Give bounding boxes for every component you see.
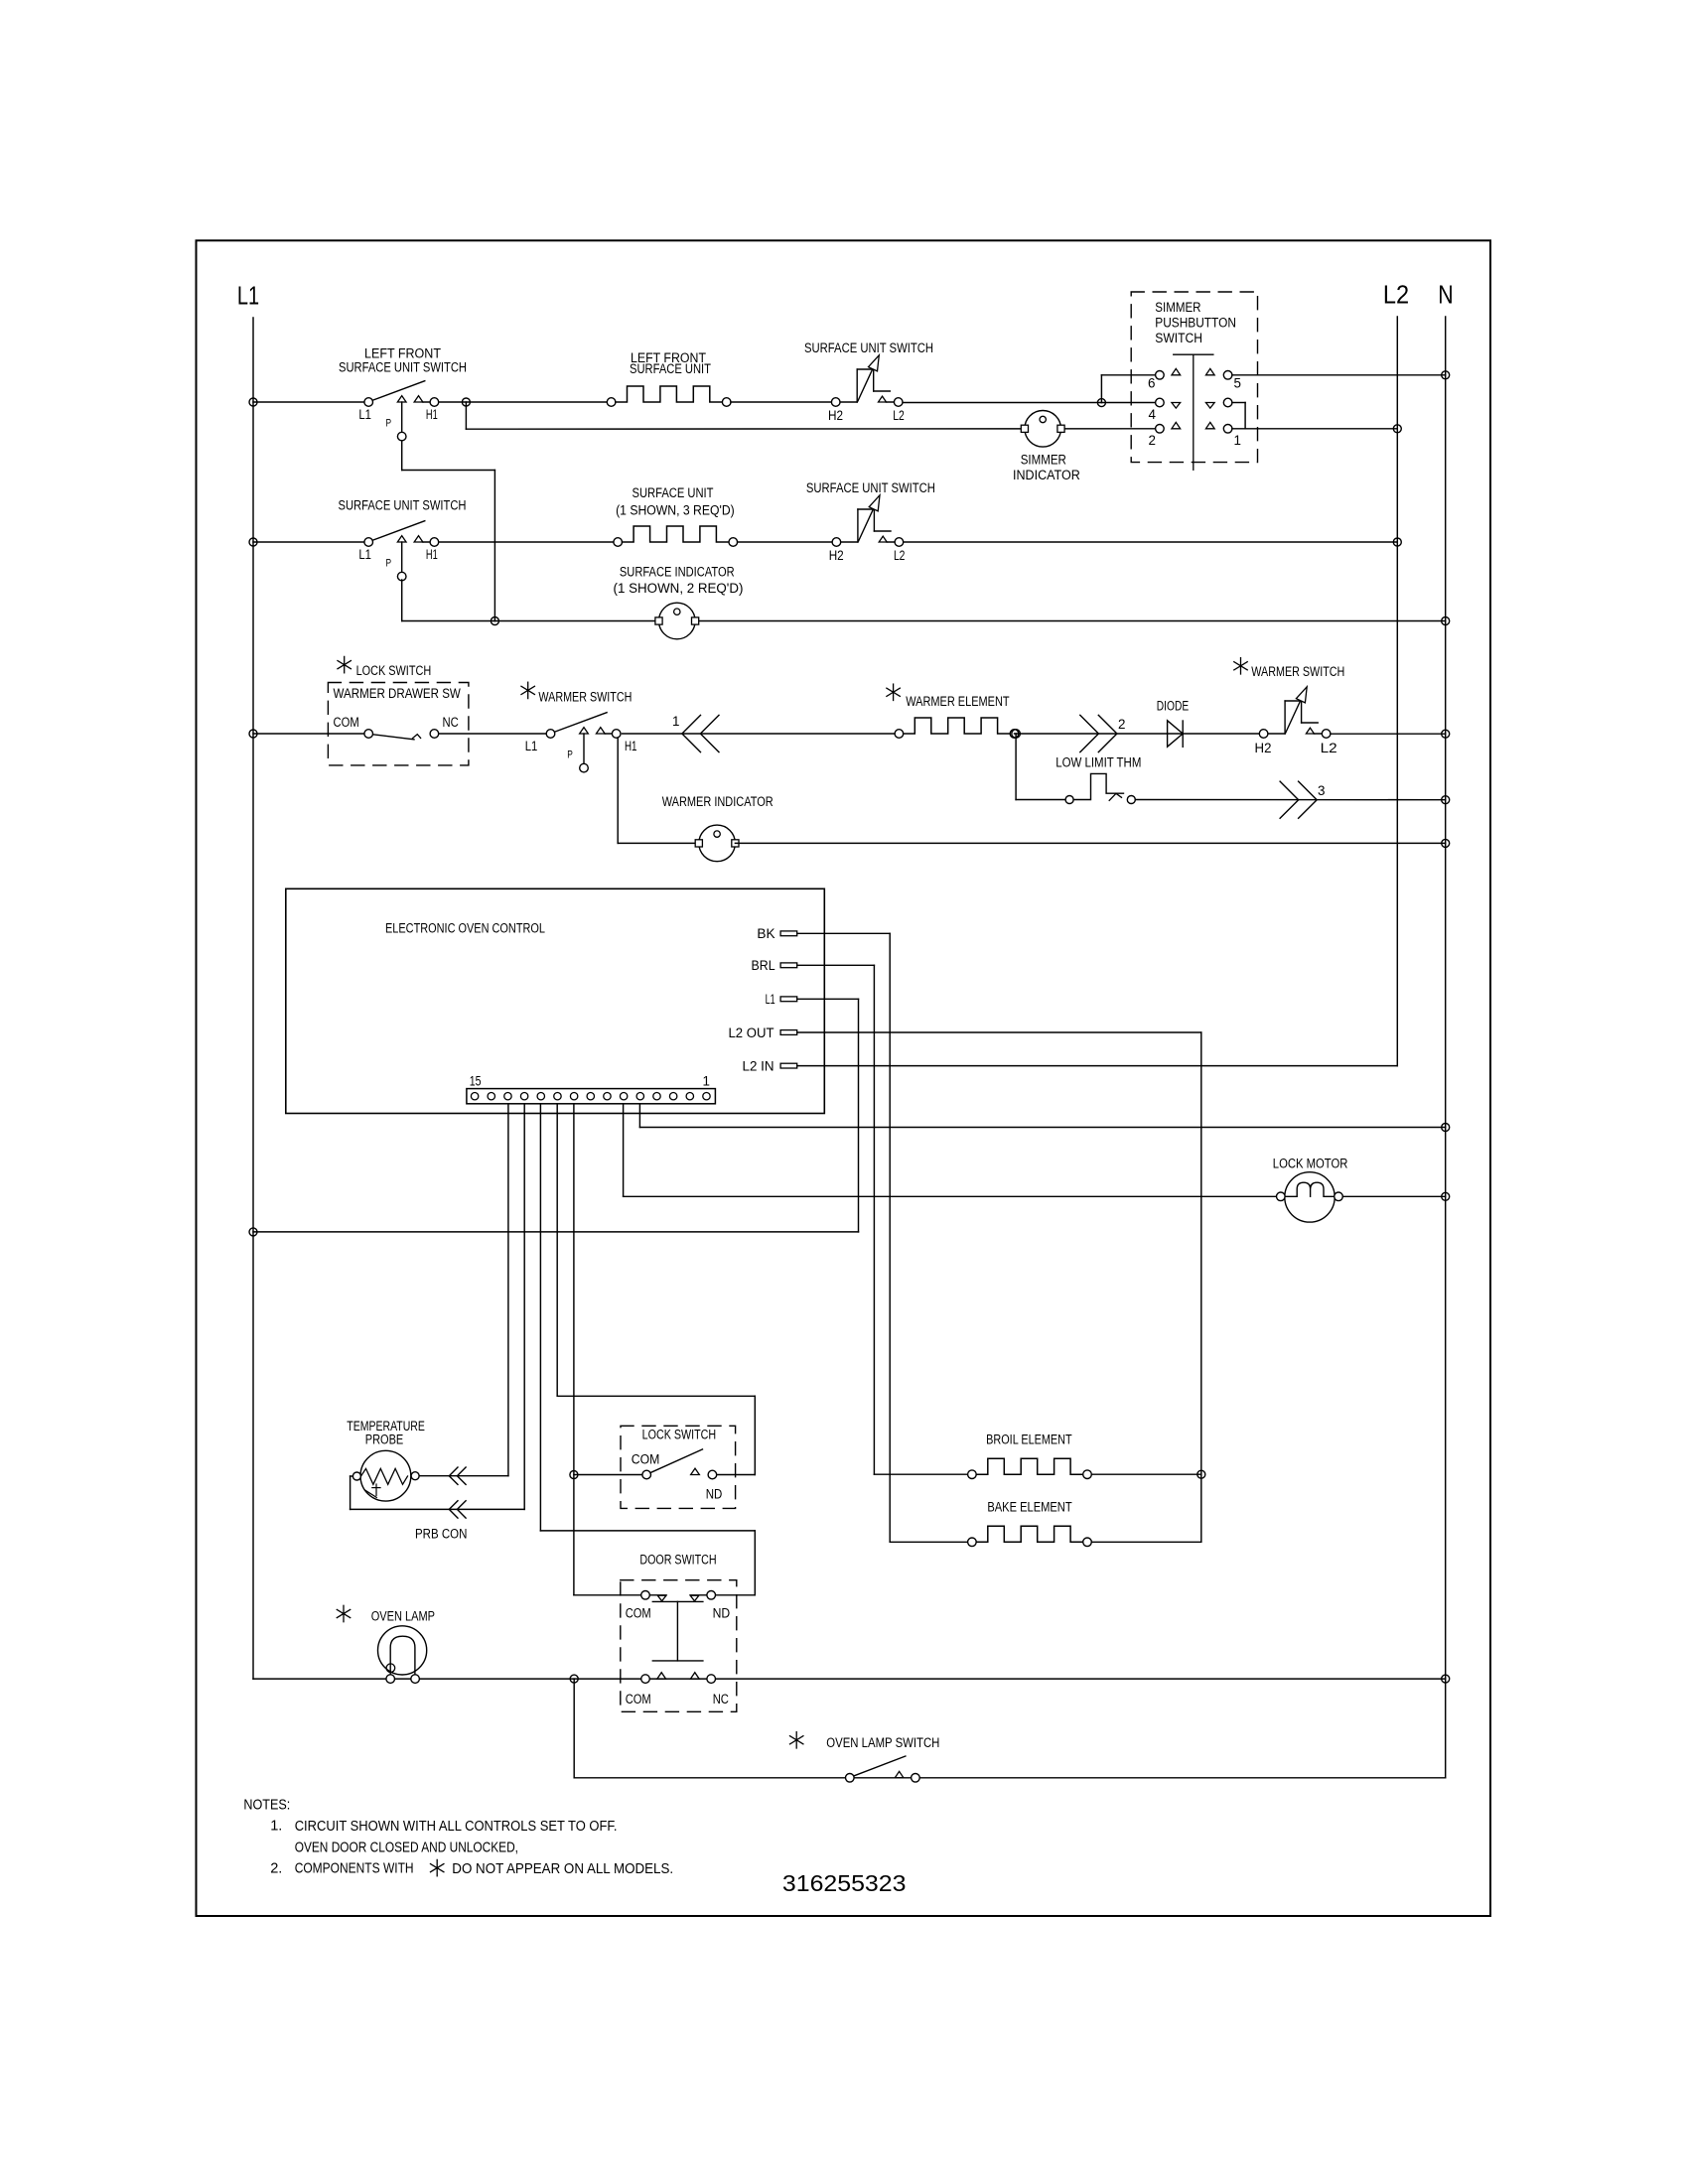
svg-text:PRB CON: PRB CON [415,1527,467,1542]
svg-text:SIMMER: SIMMER [1021,453,1066,468]
svg-text:SURFACE UNIT: SURFACE UNIT [633,485,714,500]
junction contact5 at N rail [1442,371,1450,379]
wire pin9 to lock COM and door COM [573,1104,575,1595]
wire riser to contact row 6 [1100,375,1102,403]
resistor warmer element [895,730,904,739]
wire row1 element to H2 [731,401,836,403]
wire row1b to simmer indicator and contact 2 [466,428,1160,430]
thermostat low limit thm [1065,796,1073,804]
switch S1 left front surface unit switch [372,381,425,401]
svg-text:OVEN LAMP SWITCH: OVEN LAMP SWITCH [826,1735,939,1750]
pad L1 [780,997,797,1002]
svg-text:SURFACE UNIT SWITCH: SURFACE UNIT SWITCH [339,360,467,375]
svg-text:P: P [386,558,392,570]
svg-text:COM: COM [626,1605,651,1620]
wire warmer H1 to chevron [623,733,900,735]
wire pin6 to lock motor [623,1104,625,1197]
svg-text:DOOR SWITCH: DOOR SWITCH [639,1553,716,1568]
box lock switch (dashed) [621,1426,736,1508]
junction pin5 at N rail [1442,1124,1450,1132]
svg-text:NC: NC [713,1692,729,1706]
svg-text:L1: L1 [525,739,538,753]
svg-text:2: 2 [1118,717,1125,732]
contact 5 triangle [1205,368,1214,374]
svg-text:L2: L2 [1321,741,1337,755]
wire row2 element to H2 [738,541,837,543]
svg-text:NOTES:: NOTES: [243,1798,290,1814]
switch lock switch blade [650,1449,703,1473]
pushbutton actuator bar [1174,353,1213,355]
svg-text:INDICATOR: INDICATOR [1013,468,1080,482]
connector chevron 1 [682,715,701,751]
svg-text:SURFACE UNIT SWITCH: SURFACE UNIT SWITCH [804,341,933,355]
wire pin12 to probe return (PRB CON) [523,1104,525,1510]
wire contact 5 to N [1232,374,1446,376]
svg-text:P: P [386,418,392,430]
wire lock motor to N rail [1342,1195,1445,1197]
svg-text:L2 OUT: L2 OUT [729,1025,774,1040]
box electronic oven control U1 [286,888,825,1113]
wire warmer indicator to N rail [735,842,1445,844]
svg-text:L1: L1 [358,547,371,562]
wire oven lamp row (L1 rail to door COM to N rail) [253,1678,1446,1680]
wire warmer L2 to N rail [1331,733,1446,735]
svg-text:L2: L2 [894,548,906,563]
svg-text:COMPONENTS WITH: COMPONENTS WITH [295,1861,414,1877]
contact 2 circle [1156,425,1165,434]
box warmer drawer switch (dashed) [328,683,469,765]
svg-text:P: P [567,750,573,761]
asterisk oven lamp note [337,1605,350,1621]
svg-text:CIRCUIT SHOWN WITH ALL CONTROL: CIRCUIT SHOWN WITH ALL CONTROLS SET TO O… [295,1819,618,1835]
junction warmer at N rail [1442,730,1450,738]
svg-text:1.: 1. [270,1819,282,1835]
wire H1 junction drop [465,402,467,429]
wire low limit to chevron 3 [1136,799,1446,801]
svg-text:H2: H2 [829,548,844,563]
svg-text:SURFACE UNIT SWITCH: SURFACE UNIT SWITCH [339,498,467,513]
svg-text:6: 6 [1148,376,1155,391]
wire to surface indicator [494,620,1445,622]
wire row2 L1 to switch [253,541,368,543]
junction contact1 at L2 rail [1393,425,1401,433]
svg-text:(1 SHOWN, 2 REQ'D): (1 SHOWN, 2 REQ'D) [614,581,744,596]
connector chevron 2 [1080,715,1099,751]
svg-text:LOCK SWITCH: LOCK SWITCH [642,1428,717,1442]
svg-text:WARMER ELEMENT: WARMER ELEMENT [906,694,1009,709]
svg-text:L1: L1 [358,407,371,422]
svg-text:OVEN DOOR CLOSED AND UNLOCKED,: OVEN DOOR CLOSED AND UNLOCKED, [295,1841,518,1856]
svg-text:COM: COM [334,715,359,730]
svg-text:BRL: BRL [752,958,775,973]
indicator warmer indicator lamp [699,825,736,862]
svg-text:L2: L2 [893,408,905,423]
connector chevrons at probe return (pin12) [449,1501,458,1518]
pad L2 IN [780,1063,797,1068]
terminal COM circle [364,730,373,739]
terminal NC circle [430,730,439,739]
diode D1 [1168,721,1184,747]
contact 1 triangle [1205,422,1214,428]
svg-text:ND: ND [706,1487,723,1502]
svg-text:LOW LIMIT THM: LOW LIMIT THM [1055,755,1141,770]
svg-text:L1: L1 [766,992,775,1007]
wire L2 IN to L2 rail [797,1065,1398,1067]
asterisk warmer switch note [521,682,534,698]
svg-text:COM: COM [632,1451,660,1466]
svg-text:OVEN LAMP: OVEN LAMP [371,1608,435,1623]
pad BK [780,931,797,936]
wire lamp switch branch drop [573,1679,575,1778]
wire row3 L1 to warmer drawer sw [253,733,368,735]
wire bake right to L2 OUT drop [1091,1541,1201,1543]
wire row1 L2 to simmer junction [903,402,1101,404]
svg-text:BK: BK [757,926,774,941]
resistor left front surface unit element [607,398,616,407]
contact 5 circle [1223,371,1232,380]
wire warmer drawer NC to warmer switch [439,733,551,735]
svg-text:3: 3 [1318,783,1325,798]
wire row2 L2 to L2 rail [904,541,1397,543]
junction L1 return at L1 rail [249,1228,257,1236]
wire switch P1 drop to surface indicator feed [401,441,403,471]
svg-text:L2 IN: L2 IN [743,1058,774,1073]
svg-text:LEFT FRONT: LEFT FRONT [364,346,441,361]
door switch top contacts [649,1594,666,1596]
asterisk warmer switch right note [1234,658,1247,674]
wire row2 H1 to element [439,541,619,543]
wire pin13 to temperature probe [507,1104,509,1476]
junction low limit at N rail [1442,796,1450,804]
contact 6 circle [1156,371,1165,380]
contact 1 circle [1223,425,1232,434]
svg-text:5: 5 [1234,376,1241,391]
junction door NC at N rail [1442,1675,1450,1683]
svg-text:DIODE: DIODE [1157,699,1189,714]
wire L1 pad to L1 rail [797,998,859,1000]
svg-text:ND: ND [713,1605,731,1620]
svg-text:WARMER SWITCH: WARMER SWITCH [538,690,632,705]
junction lock motor at N rail [1442,1192,1450,1200]
page border frame [197,240,1491,1916]
wire contact 1 to L2 rail [1232,428,1397,430]
svg-text:H1: H1 [426,547,438,562]
svg-text:L1: L1 [237,281,259,311]
svg-text:BAKE ELEMENT: BAKE ELEMENT [987,1500,1071,1515]
junction at simmer feed [1097,399,1105,407]
switch S5 warmer switch [554,713,607,733]
wire L2 rail [1396,317,1398,1066]
box door switch (dashed) [621,1580,737,1712]
junction warmer element right [1012,730,1021,739]
svg-text:SURFACE UNIT: SURFACE UNIT [630,361,711,376]
junction row2 at L1 rail [249,538,257,546]
junction P wires [491,617,498,625]
junction row2 at L2 rail [1393,538,1401,546]
svg-text:(1 SHOWN, 3 REQ'D): (1 SHOWN, 3 REQ'D) [616,503,735,518]
pad L2 OUT [780,1030,797,1035]
svg-text:1: 1 [1234,433,1241,448]
wire warmer H1 drop to warmer indicator [617,738,619,843]
thermistor TP temperature probe [360,1450,411,1501]
wire lock COM branch [574,1474,646,1476]
terminal door bottom COM circle [641,1675,650,1684]
wire BK to bake element [797,932,891,934]
wire row1 H1 to element [439,401,612,403]
motor M1 lock motor [1285,1172,1335,1222]
contact 4 triangles [1172,403,1181,409]
svg-text:BROIL ELEMENT: BROIL ELEMENT [986,1432,1072,1446]
wire broil right to L2 OUT drop [1091,1473,1201,1475]
resistor surface unit element row2 [614,538,623,547]
asterisk oven lamp switch note [789,1732,802,1748]
svg-text:COM: COM [626,1692,651,1706]
switch S6 warmer switch right [1268,733,1285,735]
wire pin10 to lock switch ND [556,1104,558,1397]
asterisk warmer element note [887,684,900,700]
wire pin5 to N rail [638,1104,640,1128]
switch S2 surface unit switch row1 right [840,401,857,403]
wire row1 L1 to switch [253,401,368,403]
svg-text:ELECTRONIC OVEN CONTROL: ELECTRONIC OVEN CONTROL [385,921,545,936]
svg-text:H2: H2 [828,408,843,423]
svg-text:SWITCH: SWITCH [1155,331,1202,345]
lamp oven lamp [378,1626,427,1675]
connector chevron 3 [1280,781,1299,818]
connector J1 pin circles 15..1 [471,1093,478,1100]
svg-text:H1: H1 [625,739,637,753]
svg-text:4: 4 [1149,407,1157,422]
svg-text:N: N [1438,279,1453,309]
wire N rail [1445,317,1447,1778]
terminal lock COM circle [642,1470,651,1479]
svg-text:2: 2 [1149,433,1156,448]
wire BRL to broil element [797,964,875,966]
junction row1 below H1 [462,398,470,406]
switch warmer drawer blade [372,735,414,740]
wire drop to low limit thermostat [1015,734,1017,800]
svg-text:PUSHBUTTON: PUSHBUTTON [1155,316,1236,331]
contact 4 left circle [1156,398,1165,407]
wire contact 4 jumper to row 2-1 [1232,402,1245,404]
svg-text:1: 1 [702,1074,709,1089]
junction warmer indicator at N rail [1442,839,1450,847]
svg-text:LOCK SWITCH: LOCK SWITCH [356,663,432,678]
svg-text:1: 1 [672,714,679,729]
terminal door bottom NC circle [707,1675,716,1684]
pad BRL [780,963,797,968]
contact 2 triangle [1172,422,1181,428]
asterisk lock switch note [338,656,351,672]
wire L1 rail [252,318,254,1679]
junction surface indicator at N rail [1442,617,1450,625]
wire L2 OUT to elements [797,1031,1201,1033]
switch S3 surface unit switch row2 [372,521,425,541]
junction broil at L2 OUT drop [1197,1470,1205,1478]
resistor broil element [968,1470,977,1479]
svg-text:H1: H1 [426,407,438,422]
contact 6 triangle [1172,368,1181,374]
junction row1 at L1 rail [249,398,257,406]
svg-text:316255323: 316255323 [782,1870,907,1896]
svg-text:PROBE: PROBE [365,1432,404,1446]
junction pin9 at lock COM [570,1471,578,1479]
resistor bake element [968,1538,977,1547]
terminal lock ND circle [708,1470,717,1479]
wire pin11 to door switch ND [539,1104,541,1531]
svg-text:SURFACE INDICATOR: SURFACE INDICATOR [620,565,735,580]
wire warmer element to diode [1015,733,1264,735]
connector strip J1 [467,1089,716,1104]
junction lamp branch [570,1675,578,1683]
door switch bottom contacts [657,1673,666,1679]
contact 4 right circle [1223,398,1232,407]
wire oven lamp switch row [574,1777,1445,1779]
svg-text:L2: L2 [1383,279,1409,309]
junction row3 at L1 rail [249,730,257,738]
wire switch P2 drop [401,580,403,621]
switch oven lamp switch [853,1756,906,1776]
svg-text:WARMER INDICATOR: WARMER INDICATOR [662,794,774,809]
svg-text:SURFACE UNIT SWITCH: SURFACE UNIT SWITCH [806,480,935,495]
connector chevrons at probe (pin13) [449,1467,458,1484]
switch S4 surface unit switch row2 right [841,541,858,543]
asterisk in note 2 [430,1859,443,1875]
svg-text:H2: H2 [1255,741,1272,755]
svg-text:DO NOT APPEAR ON ALL MODELS.: DO NOT APPEAR ON ALL MODELS. [452,1861,673,1877]
indicator surface indicator lamp [659,603,696,639]
svg-text:15: 15 [470,1074,482,1089]
box simmer pushbutton switch (dashed) [1131,292,1257,463]
door switch pushbutton bar [652,1600,703,1602]
svg-text:NC: NC [443,715,460,730]
indicator simmer indicator lamp [1025,411,1061,448]
svg-text:WARMER DRAWER SW: WARMER DRAWER SW [334,686,462,701]
svg-text:SIMMER: SIMMER [1155,300,1200,315]
svg-text:2.: 2. [270,1861,282,1877]
svg-text:LOCK MOTOR: LOCK MOTOR [1273,1157,1348,1171]
svg-text:WARMER SWITCH: WARMER SWITCH [1251,664,1344,679]
